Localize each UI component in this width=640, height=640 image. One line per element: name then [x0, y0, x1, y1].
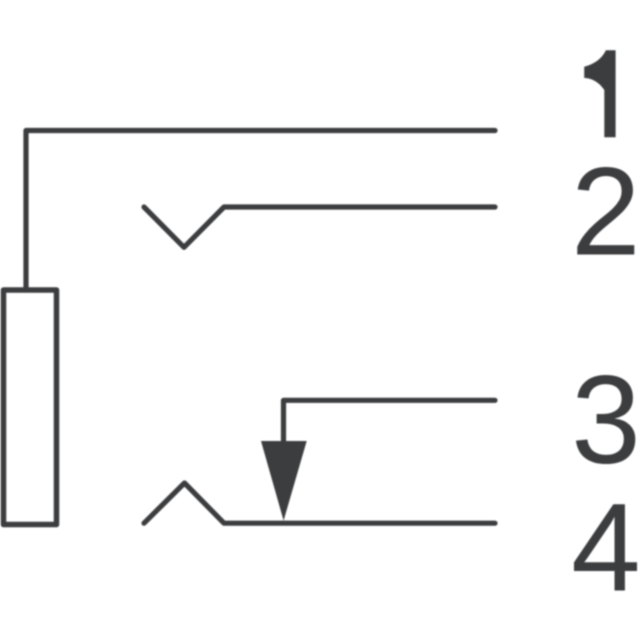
- wire: pin 2 tip contact with V notch: [144, 207, 495, 247]
- wire: pin 1 sleeve lead (horizontal with corner down to jack body): [26, 131, 495, 291]
- wire: pin 3 switch lead (horizontal with corner down to arrow): [284, 400, 496, 466]
- wire: pin 4 tip spring with peak: [144, 483, 495, 523]
- svg-text:3: 3: [571, 351, 640, 490]
- svg-text:4: 4: [571, 478, 640, 617]
- pin number 1: [584, 50, 615, 137]
- svg-text:2: 2: [571, 142, 640, 281]
- arrow: switch actuator pointing onto pin 4 wire: [261, 441, 307, 521]
- jack body / sleeve rectangle: [4, 290, 57, 525]
